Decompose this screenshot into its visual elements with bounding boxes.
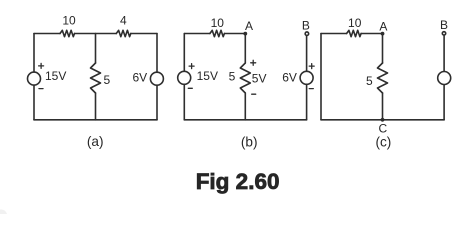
svg-text:5: 5: [366, 74, 373, 88]
svg-text:5: 5: [103, 73, 110, 87]
svg-text:(c): (c): [375, 134, 391, 149]
wire b top-left segment: [184, 33, 210, 35]
wire c terminal-B branch: [443, 33, 445, 119]
wire a right side: [156, 34, 158, 120]
scan smudge bottom-left corner: [0, 210, 7, 221]
wire b middle lower: [244, 93, 246, 120]
wire c bottom: [321, 119, 444, 121]
wire b left side: [183, 34, 185, 120]
node A (c): [381, 32, 385, 36]
wire c top-left segment: [321, 33, 347, 35]
voltage source V3 15V (b): [178, 71, 191, 84]
voltage source V1 15V (a): [28, 72, 41, 85]
svg-text:5V: 5V: [252, 72, 267, 86]
svg-text:15V: 15V: [45, 69, 66, 83]
wire c left side: [320, 34, 322, 120]
voltage source V5 (c): [438, 72, 451, 85]
svg-text:B: B: [302, 19, 310, 33]
voltage source V4 6V (b): [300, 71, 313, 84]
wire a middle upper: [95, 34, 97, 64]
svg-text:(a): (a): [87, 134, 104, 149]
wire b top-right segment: [224, 33, 245, 35]
svg-text:10: 10: [62, 14, 76, 28]
svg-text:15V: 15V: [197, 69, 218, 83]
plus sign of V1 (a): [39, 63, 44, 68]
resistor R3 5 (a): [91, 63, 101, 93]
wire a bottom: [34, 119, 157, 121]
voltage source V2 6V (a): [150, 72, 163, 85]
wire b terminal-B branch: [306, 34, 308, 120]
svg-text:6V: 6V: [133, 71, 148, 85]
node A (b): [243, 32, 247, 36]
svg-text:10: 10: [348, 16, 362, 30]
wire c middle upper: [382, 34, 384, 64]
plus sign at R5 top (b): [251, 60, 256, 65]
svg-text:4: 4: [120, 14, 127, 28]
wire b bottom: [184, 119, 306, 121]
node C (c): [381, 118, 385, 122]
plus sign of V4 (b): [309, 64, 314, 69]
resistor R2 4 (a): [116, 30, 131, 36]
wire a top-middle segment: [75, 33, 117, 35]
wire a top-left segment: [34, 33, 60, 35]
svg-text:10: 10: [211, 16, 225, 30]
svg-text:B: B: [440, 18, 448, 32]
terminal B (b): [305, 32, 309, 36]
minus sign of V4 (b): [309, 88, 313, 90]
plus sign of V3 (b): [189, 64, 194, 69]
terminal B (c): [442, 32, 445, 35]
resistor R5 5 (b): [240, 63, 250, 93]
svg-text:A: A: [245, 19, 253, 33]
resistor R7 5 (c): [378, 63, 388, 93]
resistor R6 10 (c): [347, 30, 362, 36]
wire a left side: [33, 34, 35, 120]
svg-text:Fig 2.60: Fig 2.60: [196, 169, 280, 194]
minus sign of V1 (a): [39, 88, 43, 90]
svg-text:(b): (b): [241, 135, 258, 150]
svg-text:5: 5: [229, 69, 236, 83]
wire a top-right segment: [131, 33, 157, 35]
minus sign at R5 bottom (b): [252, 93, 256, 95]
wire b middle upper: [244, 34, 246, 64]
resistor R4 10 (b): [210, 30, 225, 36]
resistor R1 10 (a): [60, 30, 75, 36]
svg-text:6V: 6V: [282, 71, 297, 85]
wire c top-right segment: [361, 33, 382, 35]
svg-text:A: A: [379, 19, 387, 33]
minus sign of V3 (b): [188, 87, 192, 89]
wire a middle lower: [95, 93, 97, 120]
wire c middle lower: [382, 93, 384, 120]
